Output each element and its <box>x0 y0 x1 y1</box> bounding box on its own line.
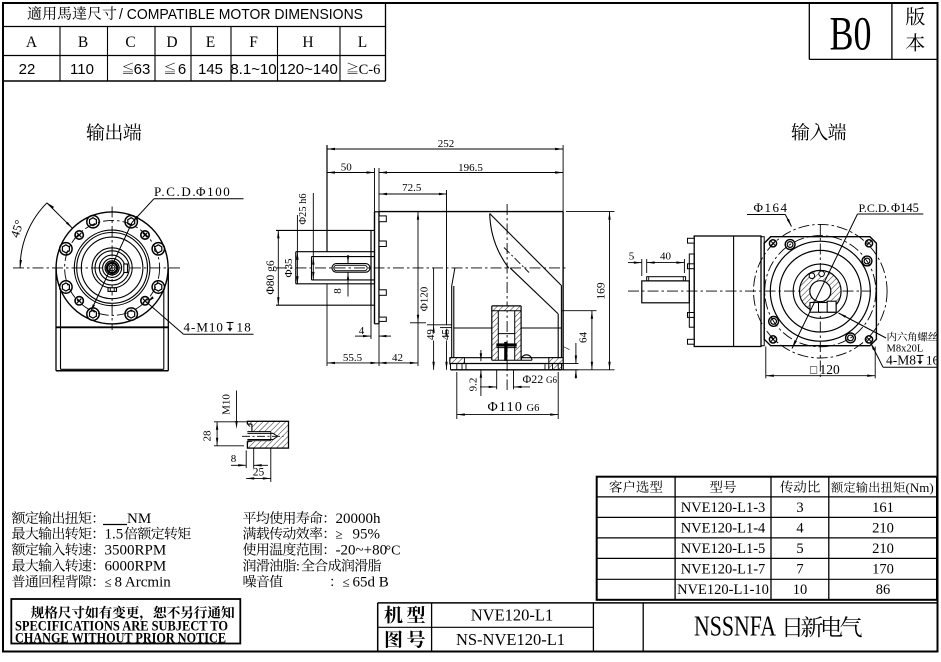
svg-text:NSSNFA: NSSNFA <box>694 611 776 643</box>
svg-text:Φ145: Φ145 <box>891 201 919 215</box>
svg-text:7: 7 <box>560 345 572 351</box>
dimension 28 <box>201 422 247 446</box>
svg-text:P.C.D.: P.C.D. <box>859 201 890 215</box>
4-M10 depth 18 label <box>147 296 254 334</box>
horizontal centerline <box>276 267 568 269</box>
svg-text:42: 42 <box>392 352 403 364</box>
gear mesh 45deg centerline <box>504 248 529 273</box>
dimension 5 (input) <box>628 251 647 277</box>
housing outline <box>379 211 563 213</box>
compatible motor dimensions table <box>3 3 386 81</box>
flange pilot phi80 <box>276 229 375 231</box>
svg-text:65d B: 65d B <box>353 575 389 591</box>
dimension 7 <box>560 343 578 379</box>
dimension 64 <box>561 311 596 370</box>
svg-text:H: H <box>302 34 313 51</box>
svg-text:C: C <box>125 34 135 51</box>
dimension 8 (detail) <box>231 448 268 468</box>
svg-text:Φ100: Φ100 <box>196 184 231 199</box>
shaft clamp block <box>810 303 836 313</box>
svg-text:L: L <box>358 34 367 51</box>
spring pin arc <box>521 355 532 360</box>
svg-text:210: 210 <box>872 521 894 537</box>
oil plug <box>108 288 117 292</box>
centerlines <box>13 267 182 269</box>
phi164 circle <box>754 224 888 358</box>
dimension 45 <box>440 328 452 370</box>
dimension phi35 <box>283 215 299 284</box>
dimension phi25 h6 <box>298 193 315 280</box>
dimension 25 (detail) <box>246 448 271 482</box>
svg-text:196.5: 196.5 <box>458 162 483 174</box>
label 4-M8 depth 16 <box>871 343 940 368</box>
svg-text:50: 50 <box>341 162 353 174</box>
svg-text:Φ80 g6: Φ80 g6 <box>265 260 277 295</box>
dimension 169 <box>563 212 614 370</box>
svg-text:E: E <box>206 34 215 51</box>
dimension 49 <box>425 268 452 370</box>
svg-text:Φ35: Φ35 <box>283 258 295 278</box>
svg-text:F: F <box>249 34 258 51</box>
motor bolt holes on PCD145 <box>862 256 872 266</box>
svg-text:25: 25 <box>253 467 265 479</box>
svg-text:□: □ <box>810 363 817 377</box>
label PCD phi145 <box>792 201 923 349</box>
hatched input bore <box>800 270 842 312</box>
svg-text:20000h: 20000h <box>336 511 382 527</box>
svg-text:6000RPM: 6000RPM <box>105 559 167 575</box>
B0 version box <box>809 3 937 60</box>
svg-text:4: 4 <box>359 325 365 337</box>
svg-text:≥: ≥ <box>336 527 343 542</box>
svg-text:63: 63 <box>134 61 151 78</box>
svg-text:55.5: 55.5 <box>343 352 363 364</box>
svg-text:C-6: C-6 <box>359 62 381 78</box>
svg-text:120: 120 <box>820 362 841 377</box>
output shaft <box>296 251 375 253</box>
svg-text:86: 86 <box>876 582 891 598</box>
svg-text:22: 22 <box>19 61 36 78</box>
svg-text:72.5: 72.5 <box>402 182 422 194</box>
dimension 72.5 <box>379 182 447 325</box>
8 hex socket bolts on PCD <box>125 216 137 228</box>
svg-text::: : <box>296 560 300 575</box>
dimension phi110 G6 <box>457 372 558 419</box>
svg-text:4: 4 <box>796 521 804 537</box>
dimension 55.5 and 42 <box>327 352 418 364</box>
svg-text:NM: NM <box>127 511 151 527</box>
svg-text:1.5: 1.5 <box>105 527 124 543</box>
svg-text:18: 18 <box>237 320 252 335</box>
svg-text:210: 210 <box>872 541 894 557</box>
svg-text:8 Arcmin: 8 Arcmin <box>115 575 172 591</box>
svg-text:170: 170 <box>872 562 894 578</box>
svg-text:Φ25 h6: Φ25 h6 <box>298 193 309 224</box>
svg-text:45: 45 <box>440 329 452 341</box>
title output end <box>86 123 104 141</box>
svg-text:95%: 95% <box>353 527 381 543</box>
svg-text:252: 252 <box>438 138 455 150</box>
svg-text:9.2: 9.2 <box>468 378 480 392</box>
svg-text:NS-NVE120-L1: NS-NVE120-L1 <box>456 630 565 649</box>
svg-text:NVE120-L1-3: NVE120-L1-3 <box>681 500 766 516</box>
4 threaded holes M10 <box>141 231 149 239</box>
dimension square 120 <box>766 347 875 379</box>
clamp screw (solid) <box>504 342 507 361</box>
PCD145 circle <box>765 236 876 347</box>
left view: output end face <box>13 207 182 371</box>
svg-text:NVE120-L1-10: NVE120-L1-10 <box>677 582 769 598</box>
input adapter side view <box>642 236 764 347</box>
input front view <box>628 224 887 378</box>
svg-text:40: 40 <box>660 251 672 263</box>
input key <box>647 277 686 281</box>
dimension 40 (input) <box>647 251 685 274</box>
45 degree dimension <box>8 203 73 268</box>
svg-text:4-M10: 4-M10 <box>184 320 224 335</box>
svg-text:8.1~10: 8.1~10 <box>230 61 276 78</box>
svg-text:°C: °C <box>386 544 401 559</box>
dimension 8 keyway <box>347 255 349 264</box>
label hex socket screw M8x20L <box>839 313 938 355</box>
output bore tube <box>492 306 521 311</box>
dimension M10 <box>221 391 238 430</box>
svg-text:6: 6 <box>178 61 186 78</box>
svg-text:3500RPM: 3500RPM <box>105 543 167 559</box>
detail: shaft end section with M10 tap <box>242 421 289 448</box>
svg-text:3: 3 <box>796 500 803 516</box>
svg-text:Φ110: Φ110 <box>488 400 524 415</box>
svg-text:CHANGE WITHOUT PRIOR NOTICE: CHANGE WITHOUT PRIOR NOTICE <box>15 631 226 647</box>
svg-text:120~140: 120~140 <box>279 61 338 78</box>
svg-text:/ COMPATIBLE MOTOR DIMENSIONS: / COMPATIBLE MOTOR DIMENSIONS <box>119 6 363 23</box>
shaft keyway slot <box>332 264 370 273</box>
svg-text:4-M8: 4-M8 <box>886 353 916 368</box>
retaining ring (solid) <box>496 343 516 346</box>
svg-text:≤: ≤ <box>105 575 112 590</box>
svg-text:M10: M10 <box>221 394 233 415</box>
bevel gear cone <box>490 214 509 269</box>
svg-text:Φ120: Φ120 <box>419 286 431 311</box>
flange bolt tabs <box>379 216 386 222</box>
dimension 50 <box>327 162 375 212</box>
title input end <box>791 123 809 141</box>
svg-text:G6: G6 <box>546 375 557 385</box>
centerlines input view <box>628 290 871 292</box>
svg-text:Φ164: Φ164 <box>754 200 789 215</box>
small holes in bore face <box>809 273 815 279</box>
svg-text:D: D <box>166 34 177 51</box>
spec text left column <box>12 511 191 591</box>
svg-text:7: 7 <box>796 562 803 578</box>
mounting flange plate <box>374 212 376 324</box>
svg-text:49: 49 <box>425 329 437 341</box>
svg-text:NVE120-L1-4: NVE120-L1-4 <box>681 521 766 537</box>
svg-text:5: 5 <box>796 541 803 557</box>
vertical centerline <box>506 204 508 390</box>
P.C.D. 100 label <box>91 184 244 312</box>
middle section view <box>276 204 568 390</box>
spec text right column <box>243 511 401 591</box>
svg-text:NVE120-L1: NVE120-L1 <box>471 606 553 625</box>
svg-text:A: A <box>26 34 38 51</box>
dimension phi120 <box>410 212 431 366</box>
label phi164 <box>747 200 792 227</box>
gearbox body (left view) <box>55 268 57 371</box>
svg-text:Φ22: Φ22 <box>523 372 544 386</box>
svg-text:8: 8 <box>332 288 344 294</box>
housing floor <box>454 327 492 329</box>
svg-text:NVE120-L1-7: NVE120-L1-7 <box>681 562 766 578</box>
svg-text:169: 169 <box>596 282 608 300</box>
dimension 9.2 <box>468 350 483 396</box>
svg-text:64: 64 <box>578 332 590 344</box>
svg-text:≤: ≤ <box>343 575 350 590</box>
svg-text:145: 145 <box>198 61 223 78</box>
svg-text:16: 16 <box>926 353 940 368</box>
title block <box>378 603 938 652</box>
svg-text:-20~+80: -20~+80 <box>336 543 388 559</box>
gear ratio selection table <box>597 477 937 600</box>
svg-text:5: 5 <box>629 251 635 263</box>
dimension phi80 g6 <box>265 230 280 305</box>
svg-text:28: 28 <box>201 430 213 442</box>
dimension 252 <box>327 138 563 366</box>
svg-text:B: B <box>78 34 88 51</box>
svg-text:G6: G6 <box>527 403 540 414</box>
dimension 196.5 <box>379 162 563 212</box>
svg-text:8: 8 <box>231 453 237 465</box>
svg-text:NVE120-L1-5: NVE120-L1-5 <box>681 541 766 557</box>
input shaft <box>642 281 690 303</box>
spigot circles <box>770 241 870 341</box>
shaft keyway <box>124 264 128 273</box>
svg-text:B0: B0 <box>830 7 872 60</box>
svg-text:10: 10 <box>793 582 808 598</box>
svg-text:110: 110 <box>70 61 94 78</box>
notice box <box>11 599 240 647</box>
dimension 4 <box>355 305 391 366</box>
flange circles <box>56 212 168 324</box>
dimension phi22 G6 <box>480 370 557 389</box>
housing inner walls <box>451 286 453 358</box>
svg-text:(Nm): (Nm) <box>906 480 934 495</box>
corner screws 4-M8 <box>769 240 776 247</box>
svg-text:161: 161 <box>872 500 894 516</box>
svg-text:P.C.D.: P.C.D. <box>154 184 197 199</box>
base ring and plate <box>450 357 492 359</box>
